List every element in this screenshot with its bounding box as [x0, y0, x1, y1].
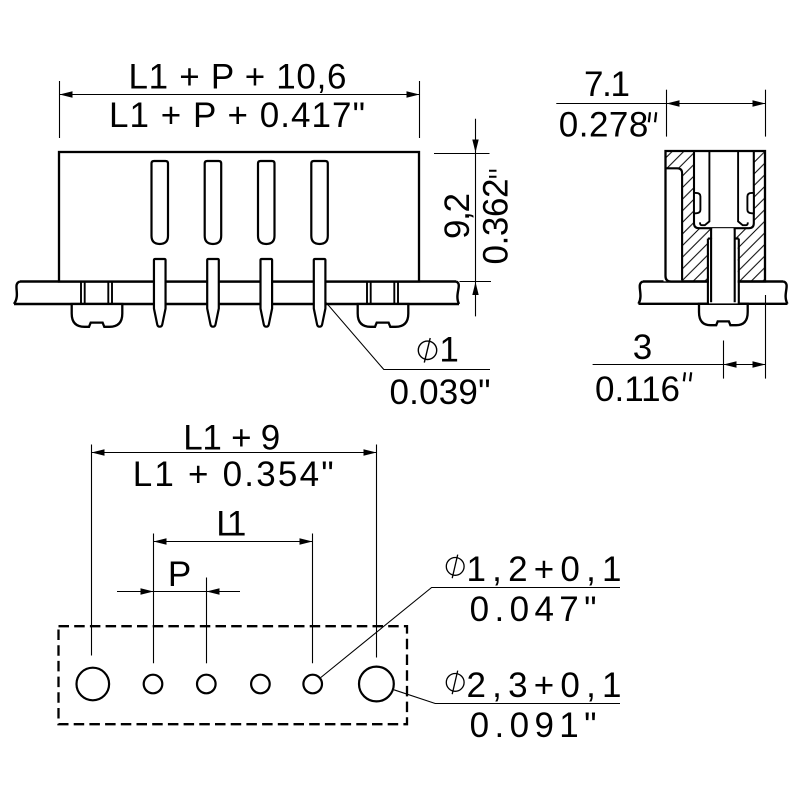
- svg-text:3: 3: [633, 328, 652, 367]
- svg-text:1: 1: [439, 331, 458, 370]
- svg-text:L1: L1: [216, 505, 246, 544]
- svg-text:7.1: 7.1: [584, 65, 630, 104]
- svg-text:P: P: [168, 555, 191, 594]
- svg-text:0.116: 0.116: [595, 370, 680, 409]
- svg-text:L1 + 0.354": L1 + 0.354": [133, 455, 334, 494]
- svg-text:L1 + 9: L1 + 9: [183, 418, 280, 457]
- svg-text:9,2: 9,2: [438, 193, 477, 239]
- svg-text:0.039": 0.039": [390, 373, 491, 412]
- svg-text:L1 + P + 0.417": L1 + P + 0.417": [109, 96, 365, 135]
- svg-text:L1 + P + 10,6: L1 + P + 10,6: [129, 57, 347, 96]
- svg-text:0.278: 0.278: [559, 106, 649, 145]
- svg-text:0.362: 0.362: [477, 179, 516, 265]
